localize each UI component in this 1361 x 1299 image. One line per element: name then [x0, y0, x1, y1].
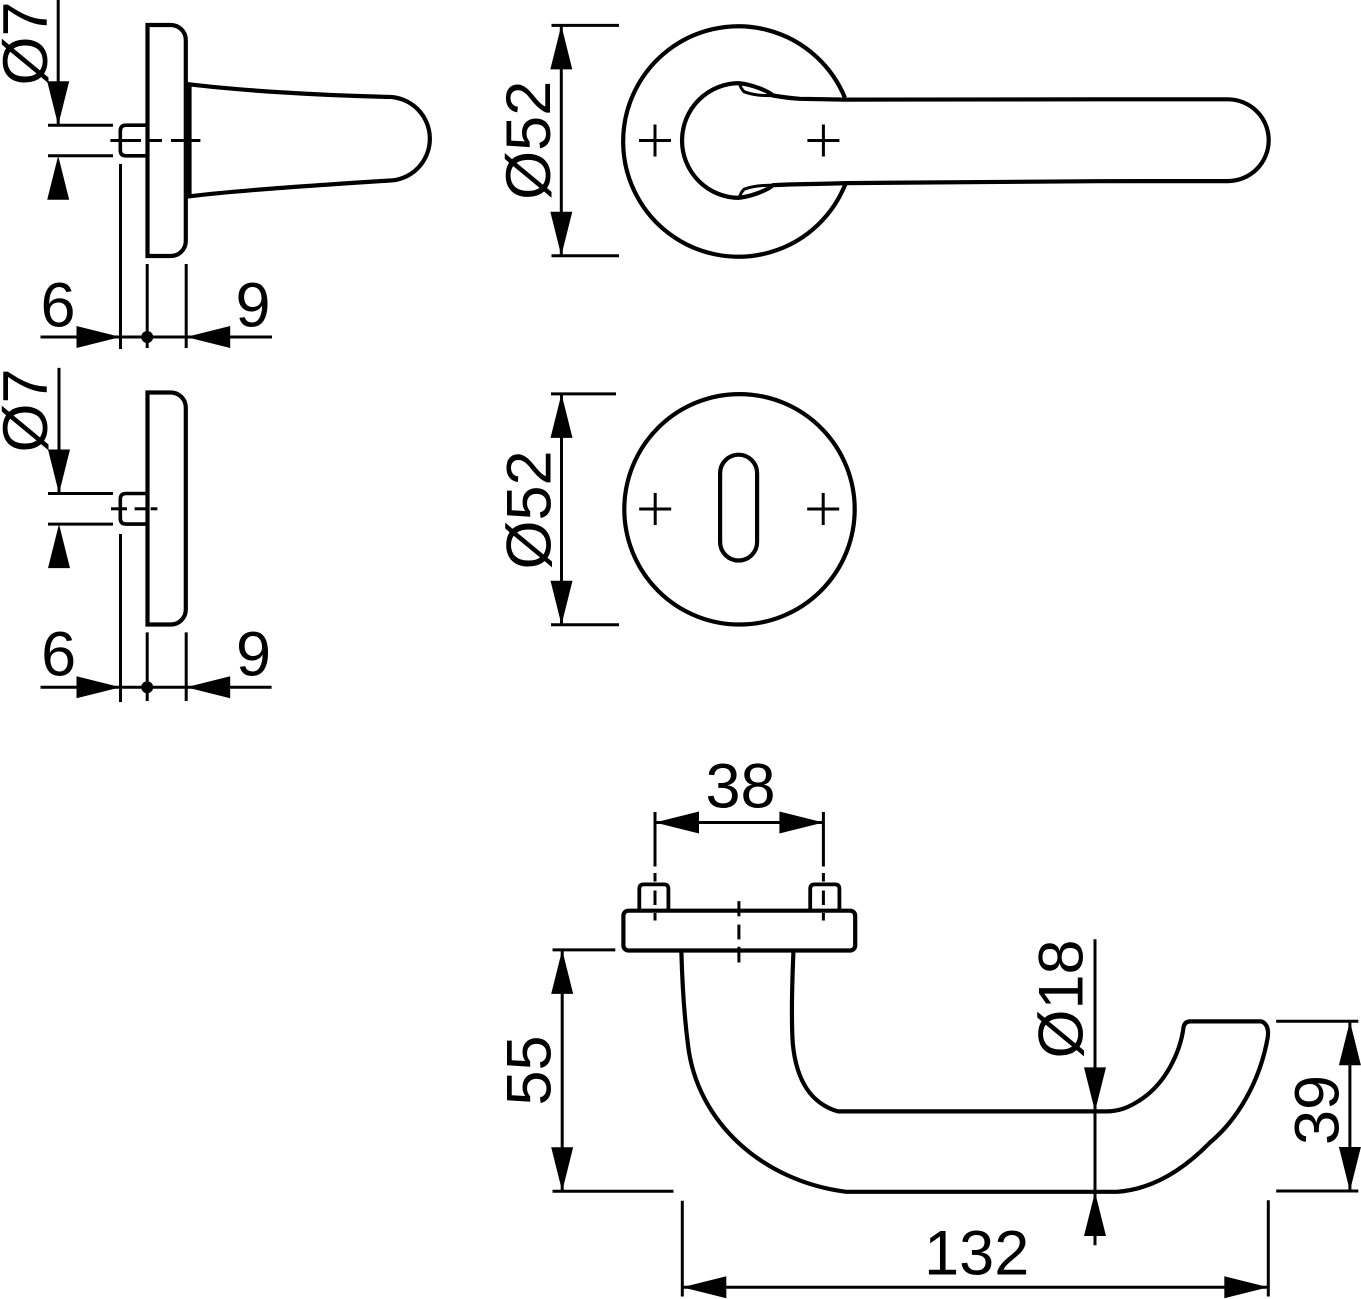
svg-text:9: 9: [236, 619, 271, 689]
svg-text:9: 9: [235, 271, 270, 341]
svg-text:38: 38: [705, 752, 775, 822]
svg-text:55: 55: [495, 1035, 565, 1105]
svg-text:Ø7: Ø7: [0, 368, 61, 452]
svg-text:132: 132: [924, 1219, 1029, 1289]
svg-text:6: 6: [40, 271, 75, 341]
svg-text:Ø18: Ø18: [1027, 939, 1097, 1058]
svg-text:Ø52: Ø52: [495, 450, 565, 569]
svg-text:Ø52: Ø52: [494, 81, 564, 200]
svg-text:Ø7: Ø7: [0, 1, 61, 85]
svg-text:6: 6: [41, 619, 76, 689]
svg-text:39: 39: [1283, 1075, 1353, 1145]
